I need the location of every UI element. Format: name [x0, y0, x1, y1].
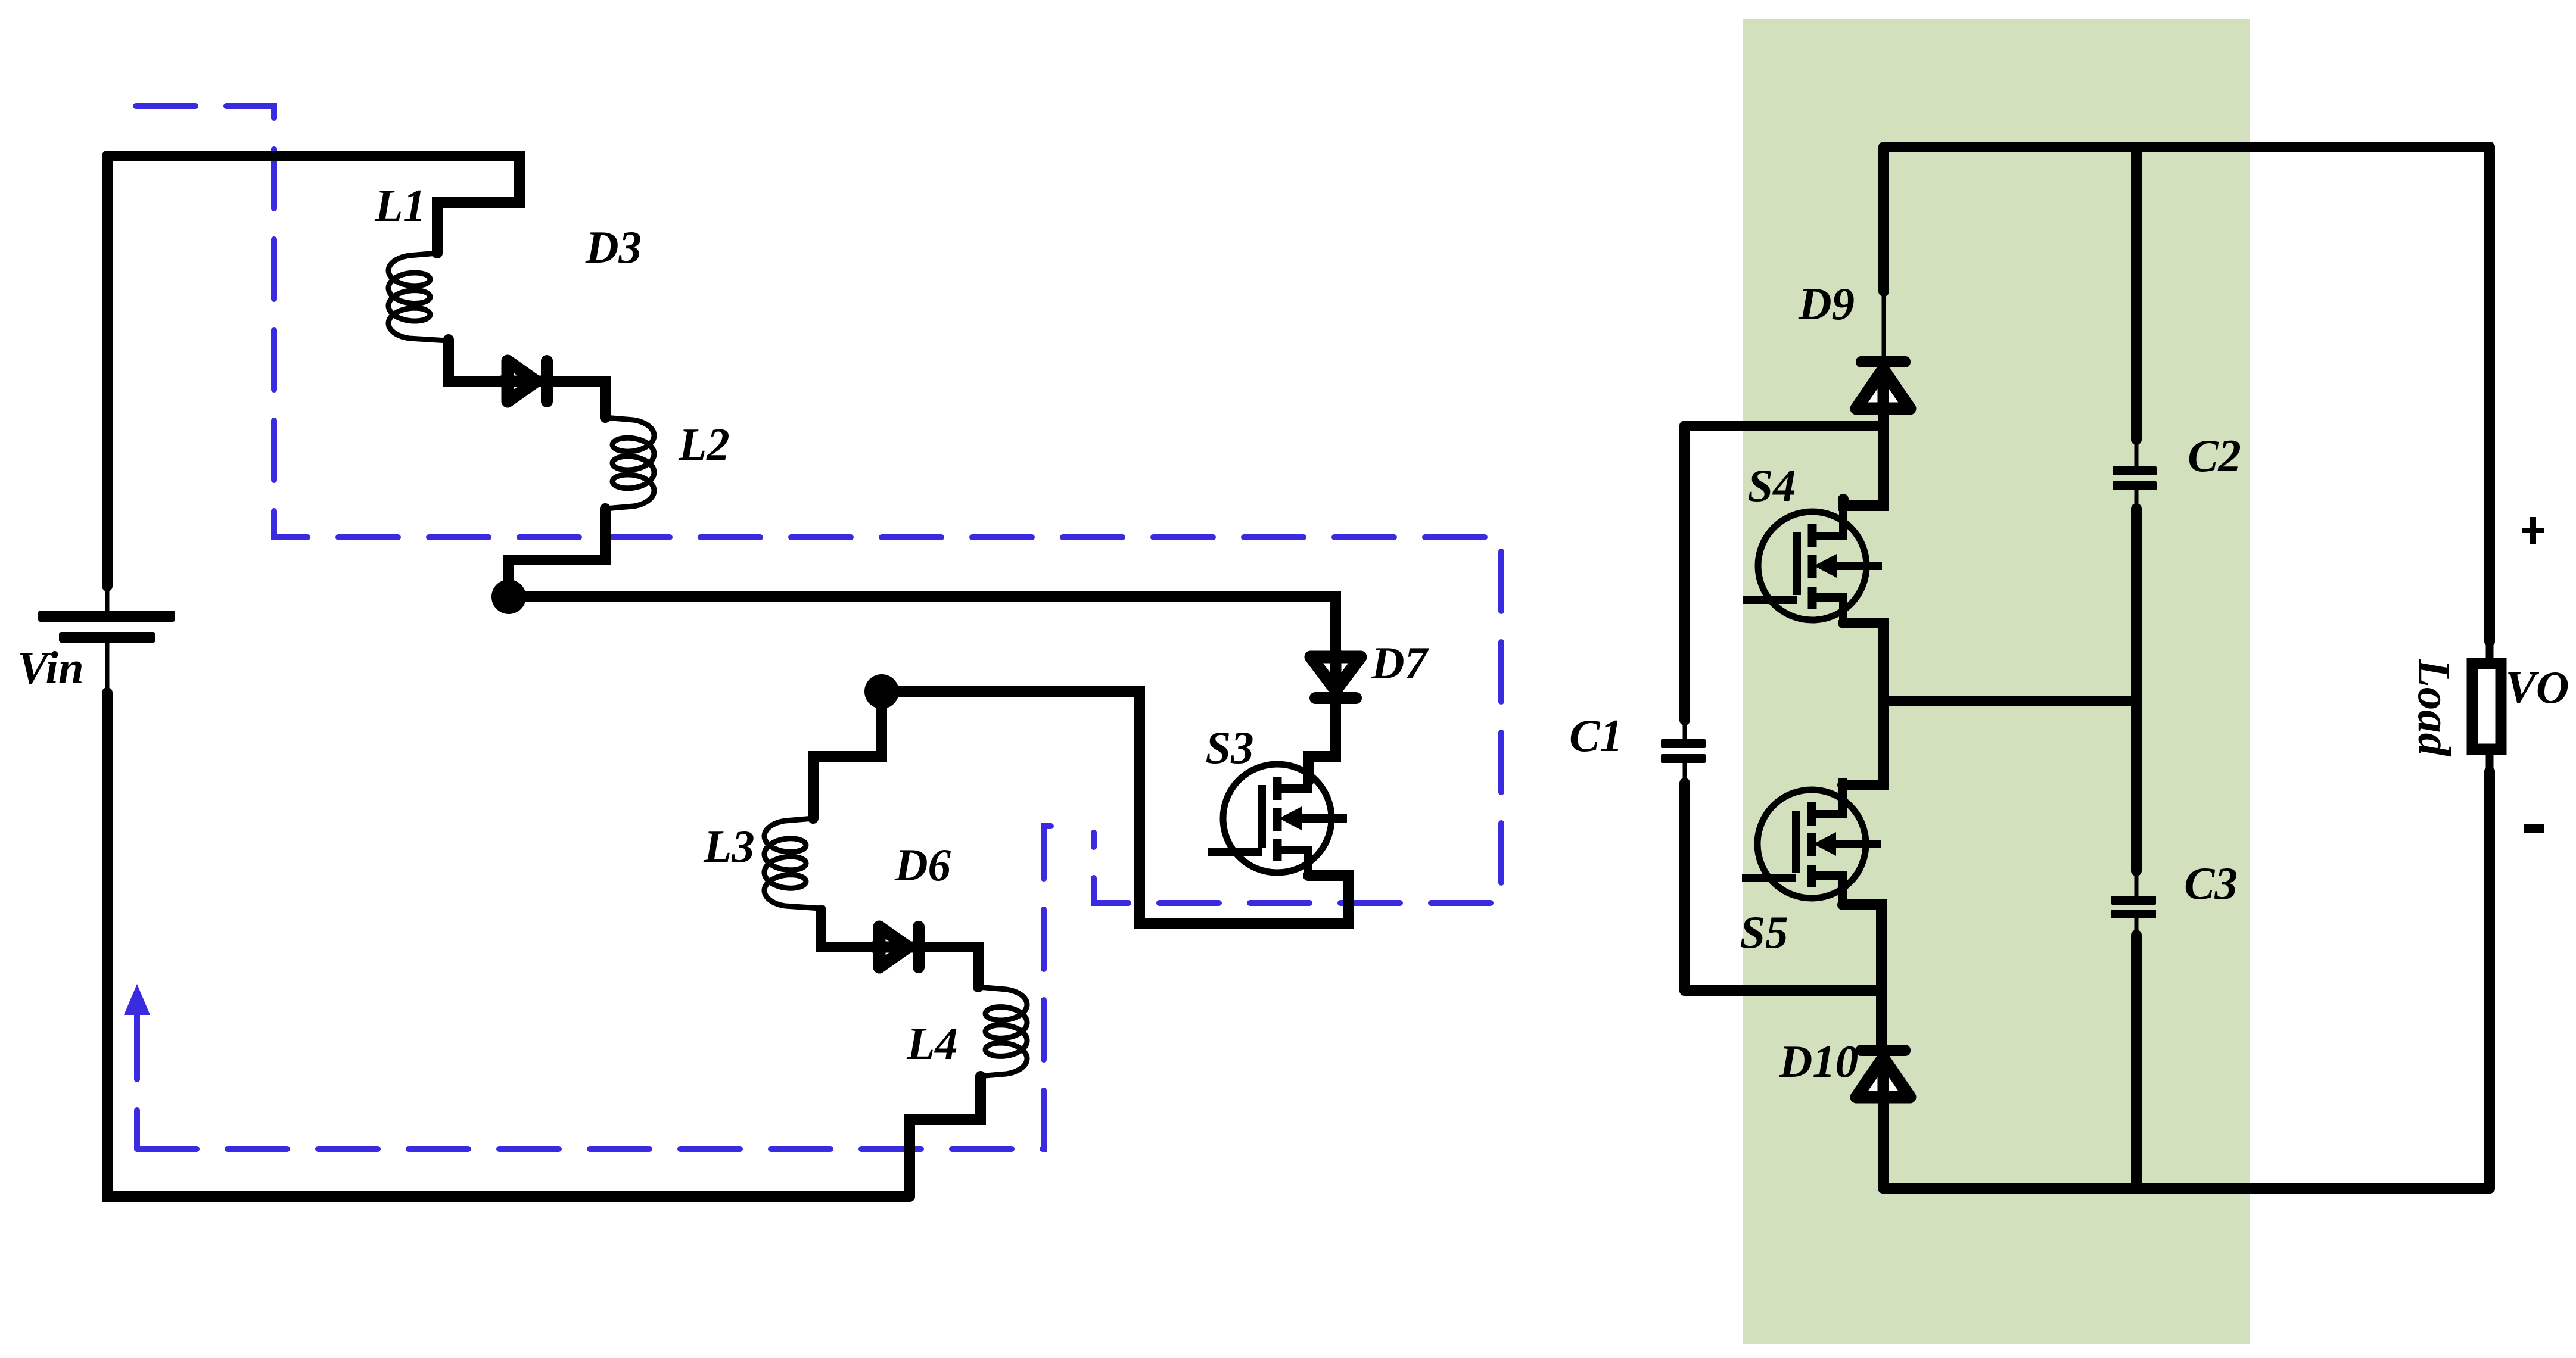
- capacitor C2 plates: [2113, 466, 2157, 475]
- wire node B to L3: [813, 692, 882, 818]
- transistor S5: [1757, 790, 1866, 898]
- svg-text:C1: C1: [1569, 710, 1623, 761]
- dashed arrow shaft: [134, 1015, 140, 1149]
- wire C2 upper leg: [2131, 147, 2142, 440]
- svg-text:S3: S3: [1205, 722, 1253, 773]
- svg-text:D10: D10: [1779, 1036, 1859, 1087]
- wire L4 to bottom rail: [910, 1076, 981, 1197]
- wire node A to D7: [509, 596, 1336, 653]
- load resistor: [2472, 664, 2501, 749]
- dashed current path loop 1: [136, 106, 1501, 903]
- inductor L4: [978, 987, 1027, 1076]
- capacitor C2 top thin lead: [2135, 440, 2139, 468]
- svg-text:S5: S5: [1740, 907, 1788, 958]
- transistor S4: [1758, 512, 1866, 620]
- capacitor C1 top thin lead: [1683, 720, 1687, 740]
- label plus sign: [2522, 528, 2544, 533]
- inductor L1: [388, 253, 447, 341]
- capacitor C1 bottom thin lead: [1683, 763, 1687, 784]
- battery Vin long plate: [38, 611, 175, 622]
- transistor S3: [1223, 764, 1331, 873]
- diode D9 thin lead: [1882, 291, 1886, 357]
- wire top-left from Vin to step: [107, 156, 519, 253]
- svg-text:D7: D7: [1371, 637, 1430, 689]
- wire C3 lower leg: [2131, 935, 2142, 1188]
- svg-text:D6: D6: [894, 839, 951, 890]
- svg-text:S4: S4: [1747, 460, 1796, 511]
- wire middle node to C2 C3: [1884, 696, 2136, 706]
- battery Vin short plate: [59, 632, 155, 643]
- diode D10: [1856, 1058, 1910, 1097]
- svg-text:L3: L3: [703, 821, 755, 872]
- wire C1 lower leg: [1679, 783, 1690, 991]
- wire D7 to S3 drain: [1308, 705, 1336, 781]
- wire S5 source to C1 bottom: [1685, 905, 1881, 991]
- svg-text:D3: D3: [585, 222, 642, 273]
- dashed path arrowhead: [124, 984, 150, 1015]
- wire load lower leg: [2484, 771, 2495, 1188]
- wire C1 upper leg: [1679, 426, 1690, 720]
- svg-text:C2: C2: [2188, 430, 2241, 481]
- wire L3 to D6: [821, 910, 875, 947]
- svg-text:D9: D9: [1798, 278, 1855, 329]
- wire Vin positive lead: [102, 156, 113, 586]
- battery Vin bottom thin lead: [105, 643, 110, 694]
- inductor L3: [764, 818, 820, 908]
- wire D6 to L4: [926, 947, 978, 987]
- capacitor C2 bottom thin lead: [2135, 490, 2139, 510]
- svg-text:Load: Load: [2409, 659, 2460, 757]
- load resistor top thin lead: [2486, 641, 2494, 659]
- wire load upper leg: [2484, 147, 2495, 641]
- node A junction dot: [491, 580, 526, 614]
- wire S5 source to D10: [1876, 991, 1887, 1046]
- wire S3 source loop to node B: [882, 692, 1348, 923]
- highlight region (green): [1743, 19, 2250, 1344]
- capacitor C3 bottom thin lead: [2135, 918, 2139, 936]
- wire C2 to middle node: [2131, 509, 2142, 701]
- wire D3 to L2: [554, 381, 605, 418]
- wire D10 to bottom rail: [1878, 1098, 1889, 1188]
- svg-text:C3: C3: [2184, 858, 2238, 909]
- inductor L2: [605, 418, 654, 509]
- load resistor bottom thin lead: [2486, 755, 2494, 773]
- label minus sign: [2524, 824, 2544, 833]
- wire output bottom rail: [1883, 1183, 2490, 1194]
- wire D9 to S4 drain: [1843, 410, 1884, 506]
- capacitor C3 plates: [2111, 896, 2156, 905]
- dashed current path loop 2: [137, 826, 1075, 1149]
- wire Vin negative to bottom rail: [107, 693, 910, 1197]
- wire S4 source to S5 drain: [1843, 623, 1884, 785]
- capacitor C1 plates: [1661, 739, 1706, 748]
- svg-text:L2: L2: [678, 419, 730, 470]
- diode D6: [879, 927, 908, 967]
- node B junction dot: [864, 674, 899, 709]
- wire top rail to D9: [1878, 147, 1889, 291]
- svg-text:Vin: Vin: [17, 642, 83, 693]
- svg-text:L4: L4: [906, 1018, 958, 1069]
- diode D7: [1311, 657, 1361, 690]
- svg-text:VO: VO: [2506, 662, 2569, 713]
- diode D3: [508, 361, 536, 401]
- capacitor C3 top thin lead: [2135, 871, 2139, 897]
- svg-text:L1: L1: [374, 180, 426, 231]
- wire capacitor C1 top branch: [1685, 421, 1884, 431]
- diode D9: [1856, 369, 1910, 409]
- wire L1 to D3: [449, 339, 503, 381]
- wire output top rail: [1884, 142, 2490, 152]
- wire L2 to node A: [509, 509, 605, 597]
- battery Vin top thin lead: [105, 586, 110, 612]
- wire C3 upper leg: [2131, 701, 2142, 871]
